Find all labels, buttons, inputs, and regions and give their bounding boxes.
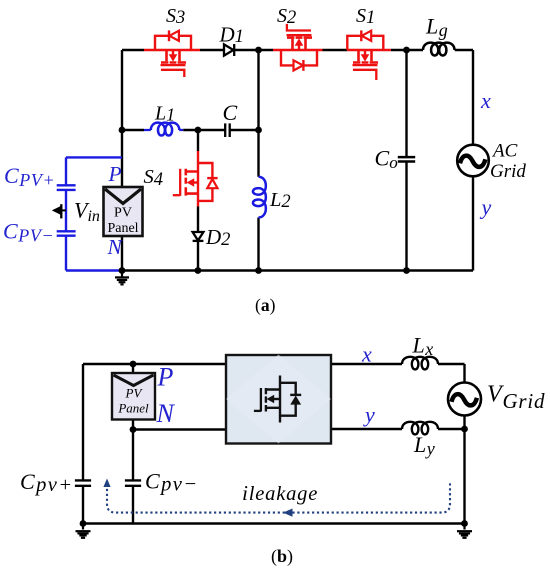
svg-text:Cpv+: Cpv+ bbox=[20, 469, 73, 496]
svg-text:N: N bbox=[156, 399, 176, 428]
svg-text:CPV+: CPV+ bbox=[4, 163, 55, 190]
svg-text:x: x bbox=[480, 88, 491, 113]
svg-text:D2: D2 bbox=[205, 225, 230, 250]
svg-text:P: P bbox=[108, 162, 122, 186]
svg-text:PV: PV bbox=[114, 206, 132, 221]
svg-text:(b): (b) bbox=[271, 546, 293, 567]
svg-text:y: y bbox=[363, 402, 375, 427]
svg-text:P: P bbox=[157, 363, 174, 392]
svg-text:S3: S3 bbox=[166, 5, 185, 28]
svg-text:S2: S2 bbox=[277, 5, 296, 28]
svg-text:Panel: Panel bbox=[107, 221, 138, 236]
svg-text:AC: AC bbox=[491, 141, 518, 162]
svg-text:PV: PV bbox=[125, 386, 144, 401]
svg-text:Vin: Vin bbox=[74, 198, 100, 226]
svg-text:VGrid: VGrid bbox=[487, 382, 545, 414]
svg-text:Grid: Grid bbox=[490, 161, 526, 182]
svg-text:CPV−: CPV− bbox=[3, 219, 54, 246]
svg-text:D1: D1 bbox=[219, 23, 244, 48]
svg-text:Lx: Lx bbox=[412, 333, 434, 360]
svg-text:Cpv−: Cpv− bbox=[145, 469, 198, 496]
svg-text:Lg: Lg bbox=[425, 14, 448, 41]
svg-text:Ly: Ly bbox=[413, 432, 435, 459]
svg-text:Co: Co bbox=[375, 146, 398, 173]
svg-text:L2: L2 bbox=[269, 189, 291, 212]
svg-text:L1: L1 bbox=[154, 103, 175, 125]
svg-text:(a): (a) bbox=[255, 295, 276, 315]
svg-text:C: C bbox=[223, 100, 238, 125]
svg-text:S1: S1 bbox=[356, 5, 375, 28]
svg-text:y: y bbox=[480, 195, 492, 220]
svg-text:ileakage: ileakage bbox=[242, 481, 318, 505]
svg-text:N: N bbox=[107, 235, 124, 259]
svg-text:S4: S4 bbox=[144, 166, 164, 190]
svg-text:x: x bbox=[361, 342, 372, 367]
svg-text:Panel: Panel bbox=[117, 401, 149, 416]
